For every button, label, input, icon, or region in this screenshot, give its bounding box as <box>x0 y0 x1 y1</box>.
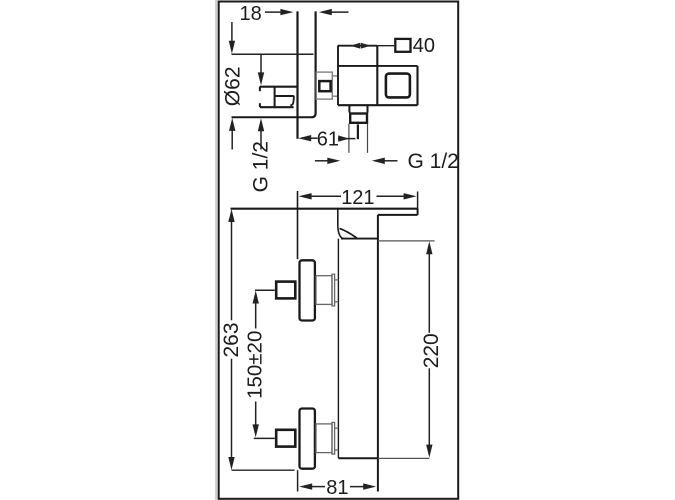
svg-text:18: 18 <box>240 3 262 25</box>
lower inlet nut <box>276 430 295 447</box>
upper inlet lower stub to body <box>335 301 339 303</box>
263 bottom target line <box>232 469 295 471</box>
socket left lower stub <box>259 103 261 107</box>
G 1/2 bottom dimension left arrow <box>315 158 340 164</box>
40 double arrow right head <box>361 43 371 49</box>
dimension Ø62 lower arrow <box>229 118 235 150</box>
socket inner horizontal <box>275 95 294 97</box>
svg-text:40: 40 <box>413 35 435 57</box>
dimension 18 right arrow <box>319 9 349 15</box>
lower inlet flange <box>300 409 315 469</box>
G 1/2 lower leader arrow (up) <box>258 118 264 149</box>
rail right step vertical <box>417 209 419 215</box>
dimension 150±20 top stub <box>255 289 275 291</box>
dimension 18 left arrow <box>265 9 293 15</box>
body left edge (front view) <box>337 239 339 459</box>
dimension 150±20 upper arrow <box>253 291 259 329</box>
dimension 150±20 lower arrow <box>253 402 259 438</box>
connector lower stub to handle <box>333 95 338 97</box>
svg-text:Ø62: Ø62 <box>222 66 245 106</box>
dimension 220 upper arrow <box>426 241 432 333</box>
connector upper stub to handle <box>333 75 338 77</box>
leader line to square-40 label <box>377 45 394 47</box>
upper inlet flange <box>300 260 315 320</box>
handle left edge <box>337 46 339 105</box>
hand shower holder socket top line <box>260 86 298 88</box>
bottom extension line for 220 <box>378 457 430 459</box>
dimension 61 right arrow <box>338 135 355 141</box>
square symbol of 40 label <box>395 39 410 52</box>
upper inlet pipe <box>316 276 332 305</box>
upper inlet pipe lip <box>332 274 335 306</box>
lower inlet pipe lip <box>332 422 335 454</box>
dimension 121 left extension (plate edge upper) <box>297 191 299 259</box>
shower rail top line <box>231 208 418 210</box>
body right edge (top view) <box>416 66 418 105</box>
svg-text:121: 121 <box>341 187 374 209</box>
socket inner vertical <box>274 87 276 108</box>
top extension line for 220 <box>378 240 435 242</box>
outlet center stub <box>357 124 359 139</box>
connector inner square <box>319 81 330 91</box>
svg-text:61: 61 <box>317 128 339 150</box>
dimension 81 left extension <box>297 470 299 491</box>
wall plate left edge (top view) <box>296 11 298 138</box>
dimension 121 line with arrows <box>299 193 417 199</box>
spout lip bottom line <box>341 238 378 240</box>
outlet stem left (top view) <box>348 105 350 112</box>
dimension 220 lower arrow <box>426 368 432 457</box>
spout left vertical <box>337 209 339 227</box>
dimension 150±20 bottom stub <box>254 437 275 439</box>
dimension 61 left arrow <box>298 135 317 141</box>
svg-text:220: 220 <box>420 333 443 368</box>
svg-text:81: 81 <box>326 477 348 499</box>
dimension 263 upper arrow <box>228 209 234 320</box>
border frame <box>219 2 459 499</box>
wall plate / escutcheon bottom line <box>232 116 314 118</box>
40 double arrow left head <box>350 43 360 49</box>
upper inlet nut <box>276 282 295 299</box>
body inner rounded square <box>386 74 410 98</box>
connector outer box <box>316 72 332 99</box>
svg-text:G 1/2: G 1/2 <box>250 141 273 192</box>
outlet right extension line <box>367 124 369 153</box>
rail underside line <box>378 214 418 216</box>
G 1/2 upper leader arrow (down) <box>258 54 264 85</box>
lower inlet upper stub to body <box>335 427 339 429</box>
socket inner hook <box>290 96 294 106</box>
outlet stem right (top view) <box>367 105 369 112</box>
handle top edge (top view) <box>338 45 378 47</box>
upper inlet upper stub to body <box>335 279 339 281</box>
wall plate right edge (top view) <box>312 11 316 117</box>
spout lip swoosh curve <box>340 228 357 238</box>
svg-text:G 1/2: G 1/2 <box>408 150 459 173</box>
svg-text:150±20: 150±20 <box>243 331 266 399</box>
dimension Ø62 upper arrow <box>229 22 235 54</box>
socket left upper stub <box>259 87 261 92</box>
lower inlet lower stub to body <box>335 449 339 451</box>
handle right / body left edge <box>376 46 378 105</box>
svg-text:263: 263 <box>220 322 243 357</box>
body bottom edge (top view) <box>338 104 418 106</box>
body bottom edge (front view) <box>338 457 378 459</box>
body right edge (front view) <box>377 215 379 492</box>
dimension 121 right extension <box>417 192 419 210</box>
hand shower holder socket bottom line <box>260 106 294 108</box>
spout lip left arc <box>338 227 344 239</box>
handle/body divider line <box>338 65 418 67</box>
escutcheon top extension line <box>232 53 314 55</box>
outlet left extension line <box>348 124 350 153</box>
dimension 263 lower arrow <box>228 359 234 470</box>
dimension 81 line with arrows <box>299 483 376 489</box>
outlet nut (top view) <box>350 114 367 123</box>
G 1/2 bottom dimension right arrow <box>372 158 398 164</box>
gray strip left of border <box>215 0 217 500</box>
lower inlet pipe <box>316 424 332 453</box>
